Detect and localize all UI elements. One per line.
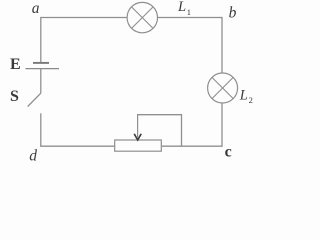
node d (29, 148, 37, 165)
svg-text:d: d (29, 148, 37, 165)
svg-text:L: L (177, 0, 186, 15)
switch S (28, 93, 41, 106)
wire (137, 115, 182, 147)
rheostat R (115, 140, 162, 151)
svg-text:S: S (10, 88, 19, 105)
lamp L2 (208, 73, 238, 103)
wire (40, 145, 115, 147)
label L1 (177, 0, 191, 17)
wire (161, 145, 222, 147)
wire (158, 17, 223, 19)
battery E (26, 63, 60, 69)
wire (40, 69, 42, 94)
label S (10, 88, 19, 105)
svg-text:b: b (229, 5, 237, 22)
node a (32, 0, 40, 17)
wire (40, 113, 42, 146)
node b (229, 5, 237, 22)
label E (10, 56, 21, 73)
label L2 (239, 87, 253, 105)
svg-text:c: c (225, 144, 232, 161)
node c (225, 144, 232, 161)
svg-text:E: E (10, 56, 21, 73)
lamp L1 (127, 2, 157, 32)
svg-text:1: 1 (187, 7, 191, 17)
wire (40, 17, 42, 62)
wire (221, 103, 223, 146)
wire (221, 17, 223, 73)
svg-text:a: a (32, 0, 40, 17)
svg-text:2: 2 (249, 95, 253, 105)
slider arrow (134, 115, 141, 140)
wire (41, 17, 127, 19)
svg-text:L: L (239, 87, 248, 103)
